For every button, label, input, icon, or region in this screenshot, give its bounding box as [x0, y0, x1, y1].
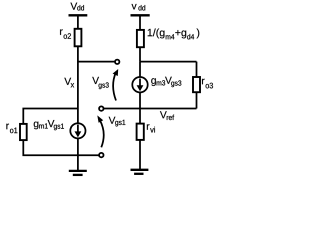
label r_vi — [147, 124, 150, 130]
label v_x — [64, 78, 71, 85]
wire top rail (right) — [140, 61, 197, 63]
wire v_x column — [77, 47, 79, 124]
label 1/(g_m4+g_d4) — [148, 29, 200, 40]
wire r_o1 top rail — [23, 109, 78, 125]
wire v_ref rail — [104, 108, 197, 110]
terminal gate M3 (open circle) — [115, 60, 119, 64]
resistor R4 1/(g_m4+g_d4) — [137, 30, 144, 47]
wire g_m3 bottom — [139, 92, 141, 108]
wire r_o3 column top — [196, 62, 198, 78]
label g_m1 v_gs1 — [34, 120, 64, 130]
power V_dd (right) — [131, 15, 150, 30]
wire r_vi bottom — [139, 140, 141, 170]
label V_dd (right) — [132, 4, 137, 9]
arrow v_gs1 sense — [97, 115, 103, 147]
terminal gate M1 (open circle) — [99, 153, 103, 157]
label v_gs1 — [109, 117, 116, 124]
label v_gs3 — [92, 77, 99, 84]
wire r_o1 bottom to rail — [23, 140, 99, 155]
wire r_vi top — [139, 109, 141, 124]
resistor R3 r_o3 — [193, 77, 200, 92]
current source g_m3 v_gs3 — [132, 77, 147, 92]
ground (right) — [131, 170, 149, 174]
terminal gate M1 (open circle, v_ref side) — [99, 106, 103, 110]
resistor R2 r_o2 — [75, 29, 82, 47]
wire R4 to top rail — [139, 47, 141, 61]
resistor R1 r_o1 — [20, 124, 27, 140]
wire source bottom — [77, 138, 79, 155]
label V_dd (left) — [70, 3, 77, 10]
label v_ref — [160, 111, 167, 118]
label r_o2 — [60, 29, 63, 35]
wire drop to g_m3 source — [139, 62, 141, 78]
wire gate stub of M3 — [78, 61, 115, 63]
label r_o3 — [202, 79, 205, 85]
ground (left) — [69, 155, 87, 175]
wire r_o3 bottom — [196, 92, 198, 108]
resistor r_vi — [137, 124, 144, 140]
power V_dd (left) — [69, 15, 88, 29]
arrow v_gs3 sense — [113, 69, 119, 101]
label g_m3 v_gs3 — [151, 77, 181, 87]
current source g_m1 v_gs1 — [70, 123, 85, 138]
label r_o1 — [6, 124, 9, 130]
